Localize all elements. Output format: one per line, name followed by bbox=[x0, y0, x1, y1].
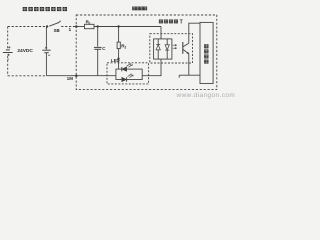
minus mark bbox=[45, 47, 47, 49]
LED D1 (top, pointing left) bbox=[121, 67, 123, 71]
node C top bbox=[97, 25, 99, 27]
resistor R2 branch bbox=[118, 27, 120, 43]
input diode up bbox=[157, 39, 159, 45]
svg-text:24VDC: 24VDC bbox=[17, 48, 33, 54]
label: optocoupler T (光耦合器T) bbox=[159, 19, 178, 23]
D1 emission arrows bbox=[127, 63, 133, 67]
external box bottom edge (dashed) bbox=[8, 75, 47, 77]
D2 emission arrows bbox=[128, 74, 134, 78]
light arrows bbox=[173, 45, 177, 48]
terminal 1 (dot on boundary) bbox=[75, 25, 78, 28]
emitter wire down to internal rect bbox=[189, 54, 200, 75]
svg-text:1: 1 bbox=[69, 27, 72, 32]
svg-text:R1: R1 bbox=[86, 20, 91, 26]
LED dashed box bbox=[107, 63, 149, 84]
plus mark left battery bbox=[8, 46, 10, 48]
svg-text:T: T bbox=[180, 20, 183, 26]
internal circuit block bbox=[200, 22, 213, 83]
bottom return wire bbox=[46, 75, 116, 77]
svg-text:C: C bbox=[102, 46, 106, 51]
main top wire bbox=[94, 26, 161, 28]
svg-text:SB: SB bbox=[54, 28, 60, 33]
collector wire up to internal rect bbox=[189, 23, 200, 43]
svg-text:R2: R2 bbox=[121, 44, 126, 50]
vertical label 内部电路 bbox=[204, 44, 208, 63]
label: external DC input power (外部直流输入电源) bbox=[23, 7, 67, 11]
terminal 1M dot bbox=[75, 74, 78, 77]
external box left edge (dashed) bbox=[7, 27, 9, 49]
battery cell on left edge bbox=[6, 49, 10, 51]
svg-text:www.diangon.com: www.diangon.com bbox=[176, 92, 236, 99]
wire terminal1 to R1 bbox=[76, 26, 84, 28]
LED D2 (bottom, pointing right) bbox=[126, 77, 128, 81]
svg-text:1M: 1M bbox=[67, 76, 73, 81]
LED loop rectangle bbox=[116, 69, 142, 79]
opto input vertical from main wire bbox=[160, 27, 162, 39]
wire LED loop to optocoupler bbox=[142, 59, 161, 76]
phototransistor bbox=[182, 42, 184, 54]
switch SB bbox=[46, 25, 48, 27]
label: internal circuit top (内部电路) bbox=[132, 7, 147, 11]
input diode down bbox=[166, 39, 168, 45]
opto input rectangle bbox=[154, 39, 172, 59]
battery B (right element) 24VDC bbox=[45, 27, 47, 50]
resistor R1 bbox=[85, 24, 95, 28]
external box top edge (dashed wire) bbox=[8, 26, 47, 28]
node R2 top bbox=[117, 25, 119, 27]
capacitor C branch bbox=[97, 27, 99, 47]
svg-text:LED: LED bbox=[111, 58, 120, 63]
internal circuit dashed box bbox=[76, 15, 217, 90]
optocoupler dashed box bbox=[150, 34, 193, 63]
